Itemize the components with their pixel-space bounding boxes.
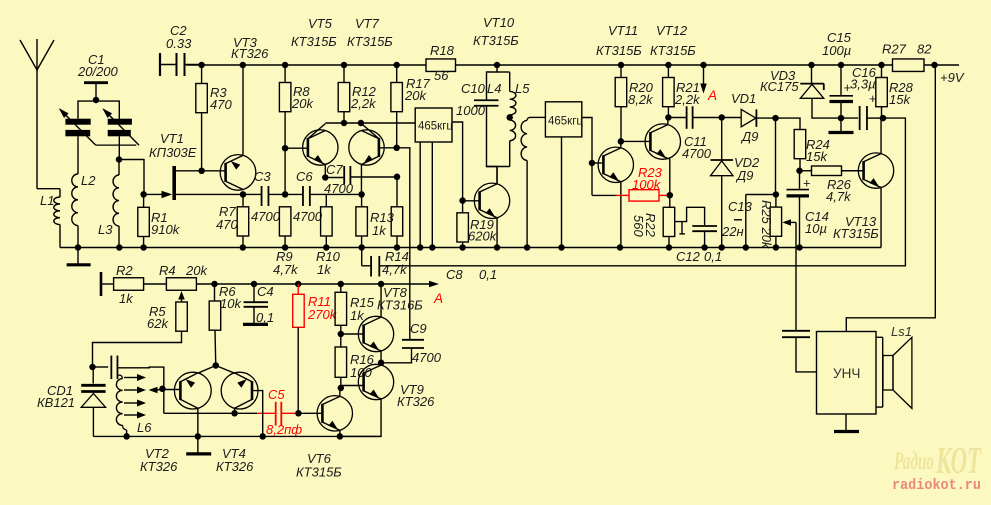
svg-text:КТ315Б: КТ315Б [296, 465, 342, 480]
transistor VT1 (JFET) [172, 166, 176, 200]
capacitor C3 [243, 193, 262, 195]
svg-text:1k: 1k [350, 308, 365, 323]
svg-text:20k: 20k [404, 88, 427, 103]
node: VT8 collector [378, 281, 385, 288]
node: R24/R26/C14 [796, 168, 803, 175]
svg-text:C9: C9 [410, 321, 427, 336]
transistor VT7 [349, 130, 384, 165]
wire: VT4 base [252, 391, 263, 437]
node: L4 tap [506, 114, 513, 121]
transistor VT4 [221, 372, 258, 409]
variable capacitor C1.2 [108, 119, 132, 125]
wire: VT3 emitter to rail [242, 65, 244, 155]
node: VT12 emitter/R23/R22 [667, 192, 674, 199]
resistor R20 [620, 65, 622, 78]
svg-text:100µ: 100µ [822, 43, 851, 58]
node: C16/R28/VT13 collector [880, 115, 887, 122]
wire: Z2 output to VT11 base [582, 118, 592, 196]
resistor R25 (volume) [775, 195, 777, 208]
svg-text:C3: C3 [254, 169, 271, 184]
resistor R8 [284, 65, 286, 83]
svg-text:УНЧ: УНЧ [833, 366, 860, 381]
resistor R19 [462, 201, 464, 213]
svg-text:910k: 910k [151, 222, 181, 237]
resistor R23 (red) [592, 194, 616, 196]
svg-text:R25 20k: R25 20k [759, 200, 774, 250]
svg-text:R2: R2 [116, 263, 133, 278]
wire: to VT6 base [298, 412, 322, 414]
node: R20/VT12 base/VT11 collector [618, 138, 625, 145]
varicap CD1 [92, 367, 94, 384]
svg-text:62k: 62k [147, 316, 169, 331]
diode VD1 [722, 117, 742, 119]
node: VT5 base junction [282, 145, 289, 152]
svg-text:8,2k: 8,2k [628, 92, 654, 107]
gang link of C1 [96, 144, 137, 146]
svg-text:3,3µ: 3,3µ [850, 77, 876, 92]
svg-text:0,1: 0,1 [256, 310, 274, 325]
node: VT5 emitter/C7 [322, 174, 329, 181]
svg-text:КТ315Б: КТ315Б [833, 226, 879, 241]
svg-text:R18: R18 [430, 43, 455, 58]
transistor VT2 [174, 372, 211, 409]
svg-text:15k: 15k [889, 92, 911, 107]
node: VT7 base/R17/R14 [393, 145, 400, 152]
transistor VT11 [598, 147, 633, 182]
svg-text:20k: 20k [291, 96, 314, 111]
node: R12/collectors [341, 120, 348, 127]
node: R15 top [338, 281, 345, 288]
wire: +9V feed to AF amp [846, 65, 935, 332]
svg-text:КТ326: КТ326 [216, 459, 254, 474]
node: C15/VD3/C16 [838, 115, 845, 122]
capacitor C11 [668, 117, 686, 119]
svg-text:20k: 20k [185, 263, 208, 278]
node: VT4 collector [231, 410, 238, 417]
svg-text:1k: 1k [119, 291, 134, 306]
wire: AGC bus [215, 283, 410, 285]
resistor R7 [242, 194, 244, 206]
node: C7/R14 junction [394, 174, 401, 181]
svg-text:Ls1: Ls1 [891, 324, 912, 339]
node: VT8 emitter/VT9 collector/C9 [378, 360, 385, 367]
svg-text:20/200: 20/200 [77, 64, 119, 79]
wire: VT5/VT7 collectors [325, 122, 415, 124]
resistor R27 [893, 59, 925, 71]
svg-text:КВ121: КВ121 [37, 395, 75, 410]
svg-text:C10: C10 [461, 81, 486, 96]
node: rail/VT3 emitter [240, 62, 247, 69]
svg-text:C4: C4 [257, 284, 274, 299]
ground: VT2 collector [197, 436, 199, 452]
node: rail junctions [75, 244, 82, 251]
resistor R5 [176, 302, 188, 331]
wire: R6 to emitters [198, 366, 216, 374]
svg-text:56: 56 [434, 68, 449, 83]
svg-text:470: 470 [210, 97, 232, 112]
resistor R18 [426, 59, 456, 71]
svg-text:2,2k: 2,2k [350, 96, 377, 111]
svg-text:L3: L3 [98, 222, 113, 237]
svg-text:R4: R4 [159, 263, 176, 278]
node: R11 top [295, 281, 302, 288]
svg-text:КТ316Б: КТ316Б [377, 298, 423, 313]
wire: top supply rail y=65 [187, 64, 427, 66]
capacitor C9 [409, 339, 411, 341]
svg-text:VT7: VT7 [355, 16, 380, 31]
svg-text:КТ315Б: КТ315Б [291, 34, 337, 49]
node: R25 top [773, 191, 780, 198]
svg-text:270k: 270k [307, 307, 338, 322]
svg-text:+: + [803, 176, 811, 191]
wire: Z1 ground pins [419, 142, 421, 248]
capacitor C16 (electrolytic) [841, 117, 858, 119]
capacitor C15 (electrolytic) [840, 65, 842, 95]
ground: AF amp [845, 414, 847, 430]
node: C1 top junction [93, 97, 100, 104]
resistor R10 [325, 194, 327, 206]
resistor R26 [800, 170, 812, 172]
capacitor C13 [692, 225, 717, 227]
svg-text:КТ326: КТ326 [397, 394, 435, 409]
svg-text:КТ315Б: КТ315Б [347, 34, 393, 49]
wire: antenna to L1 [37, 188, 60, 190]
node: rail/VD3 [808, 62, 815, 69]
svg-text:+9V: +9V [940, 70, 965, 85]
resistor R21 [667, 65, 669, 78]
resistor R3 [201, 65, 203, 84]
svg-text:1k: 1k [317, 262, 332, 277]
resistor R6 [214, 284, 216, 301]
svg-text:Радио: Радио [893, 448, 934, 475]
svg-text:КТ326: КТ326 [140, 459, 178, 474]
capacitor C (osc coupling) [93, 366, 109, 368]
ground: main [77, 248, 79, 264]
svg-text:465кгц: 465кгц [548, 116, 583, 128]
node: VD1/R24 junction [772, 115, 779, 122]
svg-text:2,2k: 2,2k [674, 92, 701, 107]
svg-text:10k: 10k [220, 296, 242, 311]
svg-text:L4: L4 [487, 81, 501, 96]
arrow: AGC point A (top) [703, 65, 705, 85]
svg-text:0,1: 0,1 [704, 249, 722, 264]
capacitor C10 [487, 65, 498, 100]
resistor R13 [361, 194, 363, 206]
transistor VT13 [858, 153, 893, 188]
transistor VT10 [474, 183, 509, 218]
node: R21/VT12 collector/C11 [665, 114, 672, 121]
capacitor C5 (red) [275, 402, 277, 426]
node: rail/C15 [838, 62, 845, 69]
node: osc common junctions [123, 433, 130, 440]
resistor R12 [343, 65, 345, 83]
transistor VT8 [358, 316, 393, 351]
wire: Z2 ground pin [561, 137, 563, 248]
wire: Z1 output [452, 122, 463, 201]
svg-text:L5: L5 [515, 81, 530, 96]
wire: gate of VT1 [144, 193, 162, 195]
capacitor C4 [253, 284, 255, 302]
wire: detector load [775, 118, 777, 194]
svg-text:100k: 100k [632, 177, 662, 192]
node: C3/C6/R8/R9 junction [282, 191, 289, 198]
svg-text:VD1: VD1 [731, 91, 756, 106]
node: varicap junction [89, 364, 96, 371]
resistor R2 [114, 278, 144, 291]
wire: R22 wiper to C13 [675, 207, 705, 225]
svg-text:КП303Е: КП303Е [149, 145, 197, 160]
svg-text:КТ315Б: КТ315Б [596, 43, 642, 58]
svg-text:VT1: VT1 [160, 131, 184, 146]
resistor R22 (trimmer) [669, 195, 671, 207]
capacitor C8 [370, 256, 372, 277]
wire: R25 wiper [782, 219, 791, 226]
node: C2/R3 junction [198, 62, 205, 69]
svg-text:22н: 22н [721, 224, 744, 239]
svg-text:R27: R27 [882, 42, 907, 57]
svg-text:VT12: VT12 [656, 23, 688, 38]
inductor L6 [118, 375, 123, 378]
resistor R4 (pot) [166, 278, 196, 291]
svg-text:КС175: КС175 [760, 79, 799, 94]
svg-text:radiokot.ru: radiokot.ru [892, 477, 981, 494]
svg-text:4,7k: 4,7k [382, 262, 408, 277]
svg-text:A: A [707, 88, 717, 103]
svg-text:C6: C6 [296, 169, 313, 184]
node: tap/VT2 base [159, 386, 166, 393]
diode VD2 [721, 118, 723, 161]
svg-text:470: 470 [216, 217, 238, 232]
resistor R15 [340, 284, 342, 292]
svg-text:4700: 4700 [412, 350, 442, 365]
frame bar of C1 [84, 81, 108, 84]
node: C5/R11/VT6 base [295, 410, 302, 417]
node: VT7 emitter/R13 [358, 191, 365, 198]
inductor L2 [72, 174, 78, 226]
node: C4 top [251, 281, 258, 288]
svg-text:A: A [433, 291, 443, 306]
svg-text:4700: 4700 [251, 209, 281, 224]
svg-text:560: 560 [631, 215, 646, 237]
resistor R28 [881, 65, 883, 78]
wire: VT12 base [620, 140, 650, 142]
node: R15/R16/VT8 base [338, 331, 345, 338]
wire: tank to gate column [119, 160, 144, 195]
capacitor C14 (electrolytic) [799, 171, 801, 189]
wire: C6 to VT7 emitter line [326, 193, 361, 195]
node: R16/VT9 base/VT6 collector [338, 385, 345, 392]
transistor VT12 [645, 124, 680, 159]
wire: common rail [60, 247, 881, 249]
speaker Ls1 [876, 336, 883, 338]
node: VT10 base/R19 [459, 197, 466, 204]
svg-text:VT11: VT11 [608, 23, 638, 38]
svg-text:1k: 1k [372, 223, 387, 238]
svg-text:4700: 4700 [293, 209, 323, 224]
svg-text:0,1: 0,1 [479, 267, 497, 282]
svg-text:465кгц: 465кгц [418, 121, 453, 133]
svg-text:4,7k: 4,7k [273, 262, 299, 277]
svg-text:КТ326: КТ326 [231, 46, 269, 61]
node: rail/R28/R27 [878, 62, 885, 69]
svg-text:VT5: VT5 [308, 16, 333, 31]
svg-text:10µ: 10µ [805, 221, 827, 236]
zener VD3 [811, 65, 813, 84]
node: C11/VD1/VD2 [718, 114, 725, 121]
svg-text:C13: C13 [728, 199, 753, 214]
wire: VT13 collector output [379, 118, 905, 266]
wire: VT7 base to AGC drop [397, 148, 410, 340]
resistor R14 [396, 177, 398, 207]
svg-text:15k: 15k [806, 149, 828, 164]
svg-text:L2: L2 [81, 173, 96, 188]
svg-text:C12: C12 [676, 249, 701, 264]
svg-text:4700: 4700 [324, 181, 354, 196]
svg-text:КОТ: КОТ [935, 440, 982, 482]
svg-text:4,7k: 4,7k [826, 189, 852, 204]
svg-text:Д9: Д9 [740, 129, 758, 144]
svg-text:VT10: VT10 [483, 15, 515, 30]
inductor L1 [59, 189, 61, 197]
transistor VT9 [358, 364, 393, 399]
variable capacitor C1.1 [65, 119, 90, 125]
capacitor C17 (to AF amp) [782, 330, 810, 332]
AF amplifier УНЧ [817, 332, 877, 415]
svg-text:0.33: 0.33 [166, 36, 192, 51]
capacitor C6 [285, 193, 303, 195]
capacitor C7 [325, 177, 344, 179]
wire: C1.2 to node [118, 136, 120, 159]
resistor R17 [396, 65, 398, 83]
transistor VT6 [317, 396, 352, 431]
inductor L5 [530, 116, 546, 118]
resistor R24 [794, 130, 806, 159]
wire: R4 wiper [178, 291, 185, 300]
svg-text:82: 82 [917, 42, 932, 57]
wire: VD1 to R24 [776, 118, 801, 129]
node: VT3 collector/R7 [240, 191, 247, 198]
node: R6 top [211, 281, 218, 288]
wire: C1.1 to L2 [77, 136, 79, 174]
svg-text:620k: 620k [468, 229, 498, 244]
node: emitters of VT2/VT4 [213, 362, 220, 369]
node: R3/drain junction [198, 168, 205, 175]
node: VT11 base [589, 160, 596, 167]
svg-text:КТ315Б: КТ315Б [650, 43, 696, 58]
taps of L6 [124, 377, 137, 379]
wire: L6 tap to VT2 base [149, 387, 158, 393]
filter Z2 465кгц [545, 102, 581, 137]
svg-text:4700: 4700 [682, 146, 712, 161]
wire: C1 sections top [78, 101, 119, 119]
svg-text:L6: L6 [137, 420, 152, 435]
node: tank junction [116, 156, 123, 163]
inductor L3 [118, 160, 120, 176]
ground: C15 [829, 131, 854, 134]
transistor VT3 [220, 155, 256, 191]
filter Z1 465кгц [415, 108, 452, 142]
svg-text:1000: 1000 [456, 103, 486, 118]
resistor R11 (red) [297, 284, 299, 294]
svg-text:C8: C8 [446, 267, 463, 282]
svg-text:КТ315Б: КТ315Б [473, 33, 519, 48]
svg-text:C5: C5 [268, 387, 285, 402]
antenna W1 [20, 39, 37, 70]
inductor L4 [509, 72, 511, 91]
svg-text:Д9: Д9 [735, 168, 753, 183]
terminal: R2 input [100, 272, 103, 296]
wire: osc feedback line [164, 412, 257, 414]
svg-text:L1: L1 [40, 193, 54, 208]
resistor R1 [140, 191, 147, 198]
capacitor C2 [159, 53, 161, 76]
node: +9V [931, 62, 938, 69]
resistor R16 [340, 334, 342, 347]
svg-text:8,2пф: 8,2пф [266, 422, 302, 437]
svg-text:C7: C7 [326, 162, 343, 177]
transistor VT5 [303, 130, 338, 165]
resistor R9 [279, 207, 291, 236]
wire: oscillator common [93, 435, 380, 437]
node: rail/tank [494, 62, 501, 69]
